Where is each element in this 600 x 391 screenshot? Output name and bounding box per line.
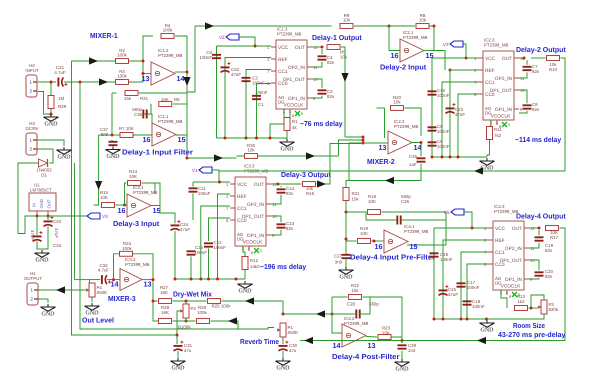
svg-text:R6: R6	[174, 97, 180, 102]
resistor R31	[125, 91, 138, 96]
wire input bus to P1 wiper	[80, 82, 274, 329]
junction	[186, 71, 189, 74]
wire gnd rail IC4.3	[434, 318, 487, 320]
junction rail	[269, 137, 272, 140]
junction	[186, 157, 189, 160]
capacitor C37	[109, 142, 118, 145]
wire R26 right	[211, 321, 239, 329]
wire to IC2.1 input	[389, 26, 400, 51]
wire wet in	[75, 279, 90, 281]
arrow delay4 return	[477, 337, 486, 344]
wire C15 down	[190, 256, 192, 279]
junction rail	[216, 278, 219, 281]
svg-text:100k: 100k	[117, 52, 127, 57]
capacitor C12	[204, 243, 213, 246]
wire C32 to opamp	[107, 279, 120, 281]
svg-text:PT2399_MB: PT2399_MB	[494, 209, 518, 214]
capacitor C14	[277, 189, 286, 192]
capacitor C18	[463, 301, 472, 304]
junction rail	[485, 318, 488, 321]
wire C14 to OP2_IN	[271, 195, 281, 204]
svg-text:Delay-2 Output: Delay-2 Output	[516, 45, 566, 54]
resistor R15	[102, 203, 115, 208]
supply flag V3	[443, 41, 463, 47]
svg-text:CC1: CC1	[495, 250, 505, 256]
arrow delay3 out	[317, 180, 326, 187]
svg-text:100nF: 100nF	[440, 257, 453, 262]
capacitor C24	[171, 220, 181, 230]
wire delay4 out return	[300, 228, 565, 341]
wire R30 row	[237, 155, 339, 157]
wire R8 right	[430, 26, 435, 51]
svg-text:C35: C35	[409, 154, 418, 159]
op-amp IC3.1	[118, 185, 161, 217]
svg-text:47uF: 47uF	[231, 72, 241, 77]
svg-text:100k: 100k	[122, 246, 132, 251]
wire R28 to R26	[173, 320, 196, 322]
wire OUT right	[519, 57, 524, 59]
junction	[112, 278, 115, 281]
svg-text:GND: GND	[340, 275, 354, 281]
svg-text:15k: 15k	[124, 96, 132, 101]
svg-text:GND: GND	[172, 366, 186, 372]
ground H1	[41, 304, 56, 318]
svg-text:IN: IN	[32, 203, 37, 207]
resistor R4	[161, 23, 174, 39]
svg-text:OP1_OUT: OP1_OUT	[490, 88, 512, 94]
junction rail	[199, 278, 202, 281]
svg-text:R7 10K: R7 10K	[119, 126, 134, 131]
svg-text:R1: R1	[292, 119, 298, 124]
wire C21 to R3	[64, 81, 116, 83]
wire P1 bottom	[282, 337, 284, 344]
svg-text:82n: 82n	[327, 60, 335, 65]
junction rail	[449, 156, 452, 159]
svg-text:R29: R29	[58, 104, 67, 109]
svg-text:82n: 82n	[532, 107, 540, 112]
svg-text:GND: GND	[107, 154, 121, 160]
wire R31 right	[139, 92, 187, 94]
svg-text:100k: 100k	[117, 73, 127, 78]
op-amp IC3.2	[111, 257, 152, 291]
wire to R31	[112, 92, 117, 94]
junction	[176, 334, 179, 337]
capacitor C29	[398, 345, 407, 348]
resistor R18	[368, 210, 381, 215]
IC IC3.3 PT2399	[226, 164, 277, 256]
junction	[142, 72, 145, 75]
wire R24 left to input	[114, 254, 120, 280]
svg-text:OP1_OUT: OP1_OUT	[242, 214, 264, 220]
wire V1 stub	[212, 170, 219, 182]
wire C7 top	[526, 60, 528, 65]
supply flag V3	[87, 213, 108, 219]
svg-text:R12: R12	[250, 258, 259, 263]
wire R27 to R25	[173, 300, 207, 302]
wire opamp out	[175, 71, 187, 73]
wire to R19	[346, 240, 357, 242]
wire AG to R11	[490, 120, 492, 126]
capacitor C34	[33, 231, 43, 241]
svg-text:C33: C33	[53, 219, 62, 224]
svg-text:Delay-1 Input Filter: Delay-1 Input Filter	[122, 148, 193, 157]
svg-text:GND: GND	[45, 122, 59, 128]
wire C19 to OP2_IN	[529, 243, 539, 248]
junction	[345, 238, 348, 241]
wire OUT right	[529, 227, 539, 229]
wire H2 pin1 to C21	[38, 81, 56, 83]
svg-text:10k: 10k	[340, 55, 348, 60]
svg-text:10K: 10K	[161, 97, 169, 102]
wire CC0 left down	[209, 218, 231, 241]
wire P4 top	[89, 280, 91, 283]
capacitor C31	[174, 341, 184, 351]
wire C5 branch	[216, 46, 218, 138]
svg-text:GND: GND	[39, 199, 44, 208]
wire C14 top	[280, 186, 282, 187]
svg-text:R10: R10	[549, 67, 558, 72]
junction	[79, 81, 82, 84]
svg-text:OP1_OUT: OP1_OUT	[283, 77, 305, 83]
wire C8 to OP1_IN pin9	[519, 111, 527, 113]
svg-text:GND: GND	[277, 366, 291, 372]
arrow return end	[304, 337, 313, 344]
resistor R13	[515, 306, 528, 311]
wire C33 down	[42, 226, 48, 249]
wire R24 right to out	[133, 254, 154, 280]
connector H3	[26, 121, 39, 155]
wire C28 right	[360, 297, 370, 314]
svg-text:C27: C27	[334, 254, 343, 259]
op-amp IC1.1	[143, 114, 186, 146]
wire vcc rail	[432, 57, 466, 59]
svg-text:15: 15	[410, 242, 418, 251]
svg-text:14: 14	[111, 280, 119, 289]
capacitor C35	[417, 158, 426, 161]
svg-text:7k2: 7k2	[494, 133, 502, 138]
junction	[401, 339, 404, 342]
svg-text:560p: 560p	[369, 302, 379, 307]
wire R4 to output	[175, 36, 187, 72]
connector H2	[25, 63, 38, 97]
svg-text:V2: V2	[219, 35, 225, 40]
svg-text:Delay-2 Input: Delay-2 Input	[380, 63, 427, 72]
svg-text:13: 13	[142, 74, 150, 83]
svg-text:100nF: 100nF	[437, 93, 450, 98]
junction rail	[442, 318, 445, 321]
svg-text:Room Size: Room Size	[513, 321, 545, 330]
junction	[420, 141, 423, 144]
ground C33 C34	[35, 250, 50, 264]
wire R20 right	[405, 108, 422, 136]
wire CC1 left down	[201, 206, 230, 279]
junction	[254, 45, 257, 48]
svg-text:13: 13	[368, 341, 376, 350]
svg-text:100nF: 100nF	[195, 250, 208, 255]
svg-text:1n3: 1n3	[408, 348, 416, 353]
capacitor C5	[212, 55, 221, 58]
svg-text:PT2399_MB: PT2399_MB	[403, 35, 427, 40]
wire R2 R3 to opamp node	[129, 61, 144, 82]
svg-text:PT2399_MB: PT2399_MB	[133, 190, 157, 195]
wire AG to R13	[501, 290, 507, 308]
svg-text:47uF: 47uF	[54, 228, 59, 238]
svg-text:R16: R16	[306, 191, 315, 196]
svg-text:16: 16	[143, 135, 151, 144]
wire C19 top	[538, 230, 540, 235]
svg-text:OUTPUT: OUTPUT	[24, 276, 42, 281]
capacitor C11	[189, 188, 198, 191]
wire to R2	[72, 60, 116, 62]
wire C11 top	[192, 182, 194, 187]
svg-text:3n9: 3n9	[335, 260, 343, 265]
wire C16 branch	[433, 228, 435, 319]
wire C36 to opamp	[147, 114, 152, 123]
svg-text:100nF: 100nF	[467, 285, 480, 290]
svg-text:OP2_IN: OP2_IN	[247, 202, 265, 208]
svg-text:100nF: 100nF	[198, 191, 211, 196]
svg-text:100nF: 100nF	[437, 129, 450, 134]
wire P2 wiper down	[177, 311, 180, 344]
svg-text:Delay-4 Post-Filter: Delay-4 Post-Filter	[332, 352, 400, 361]
wire R6 C36 node	[143, 104, 151, 114]
svg-text:10k: 10k	[247, 147, 255, 152]
wire OP1_OUT to C8	[519, 90, 527, 103]
resistor R10	[547, 56, 560, 72]
svg-text:R17: R17	[550, 235, 559, 240]
svg-text:GND: GND	[36, 258, 50, 264]
wire C30 down	[282, 351, 284, 358]
svg-text:13: 13	[144, 280, 152, 289]
capacitor C27	[342, 255, 351, 258]
wire d1f to mixer2	[339, 140, 364, 156]
wire mixer2 out	[412, 143, 421, 157]
junction rail	[255, 137, 258, 140]
svg-text:R21: R21	[352, 191, 361, 196]
capacitor C25	[439, 285, 449, 295]
svg-text:15k: 15k	[351, 288, 359, 293]
svg-text:PT2399_MB: PT2399_MB	[404, 229, 428, 234]
svg-text:14: 14	[414, 143, 422, 152]
wire gnd rail IC1.3	[217, 137, 288, 139]
svg-text:R25 100k: R25 100k	[212, 304, 232, 309]
junction	[282, 313, 285, 316]
capacitor C1	[252, 96, 261, 99]
junction	[388, 25, 391, 28]
svg-text:100k: 100k	[197, 310, 207, 315]
junction ground	[50, 113, 53, 116]
wire R11 to rail	[487, 140, 490, 157]
connector H1	[24, 271, 42, 305]
wire top feed left	[195, 25, 332, 27]
wire CC1 left	[461, 252, 488, 319]
svg-text:OUT: OUT	[502, 56, 512, 62]
wire to C29	[401, 337, 403, 343]
wire to R18	[346, 211, 367, 213]
wire C11 down	[192, 193, 194, 220]
svg-text:1k2: 1k2	[517, 299, 525, 304]
resistor R9	[340, 13, 353, 29]
svg-text:OUT: OUT	[295, 45, 305, 51]
svg-text:GND: GND	[58, 155, 72, 161]
capacitor C36	[143, 110, 146, 119]
svg-text:10K: 10K	[382, 331, 390, 336]
resistor R25	[208, 299, 221, 304]
wire wet bus to out level	[74, 163, 76, 280]
svg-text:43-270 ms pre-delay: 43-270 ms pre-delay	[498, 330, 565, 339]
wire OUT to node	[312, 46, 322, 48]
ground IC1.3	[280, 139, 295, 153]
wire VCC in	[193, 181, 230, 183]
svg-text:GND: GND	[239, 289, 253, 295]
ground IC2.3	[480, 158, 495, 172]
capacitor C33	[44, 216, 54, 226]
capacitor C28	[356, 310, 359, 319]
junction rail	[431, 156, 434, 159]
arrow after R30	[306, 152, 315, 159]
svg-text:47uF: 47uF	[455, 112, 465, 117]
resistor R2	[116, 48, 129, 64]
wire REF to C22	[225, 58, 271, 139]
wire C4 top	[321, 49, 323, 54]
capacitor C10	[428, 91, 437, 94]
svg-text:MIXER-2: MIXER-2	[367, 157, 395, 166]
svg-text:MIXER-1: MIXER-1	[90, 31, 118, 40]
svg-text:R11: R11	[494, 127, 502, 132]
wire C37 node to R7	[112, 134, 120, 136]
wire to C33	[47, 216, 49, 220]
wire to R10	[531, 57, 546, 59]
svg-text:GND: GND	[481, 328, 495, 334]
svg-text:B100K: B100K	[178, 325, 191, 330]
wire V3 to VCC IC2.3	[463, 44, 478, 58]
svg-text:OUT: OUT	[254, 182, 264, 188]
capacitor C9	[428, 142, 437, 145]
svg-text:VCC: VCC	[495, 226, 506, 232]
svg-text:Out Level: Out Level	[82, 316, 114, 325]
capacitor C17	[457, 283, 466, 286]
svg-text:3n9: 3n9	[101, 132, 109, 137]
resistor R19	[358, 239, 371, 244]
capacitor C8	[523, 105, 532, 108]
junction rail	[207, 278, 210, 281]
wire opamp input stub	[143, 73, 151, 75]
wire gnd rail IC3.3	[175, 278, 245, 280]
junction	[321, 46, 324, 49]
svg-text:82n: 82n	[286, 191, 294, 196]
svg-text:VCOCLK: VCOCLK	[491, 114, 512, 120]
svg-text:V3: V3	[102, 214, 108, 219]
svg-text:10K: 10K	[129, 174, 137, 179]
capacitor C3	[318, 90, 327, 93]
svg-text:CC1: CC1	[237, 206, 247, 212]
capacitor C19	[535, 237, 544, 240]
svg-text:LM7805CT: LM7805CT	[30, 188, 52, 193]
wire D1 to V3 rail	[18, 163, 87, 234]
wire P3 bottom to rail	[487, 314, 544, 319]
svg-text:OP1_OUT: OP1_OUT	[500, 258, 522, 264]
svg-text:82n: 82n	[545, 274, 553, 279]
svg-text:V1: V1	[192, 168, 198, 173]
capacitor C26	[397, 216, 400, 225]
resistor R1	[284, 118, 290, 131]
wire C13 to OP1_IN	[271, 230, 281, 235]
svg-text:14: 14	[177, 74, 185, 83]
wire OUT right	[271, 183, 278, 185]
resistor R5	[327, 45, 340, 50]
resistor R17	[546, 226, 559, 231]
svg-text:REF: REF	[278, 57, 288, 63]
svg-text:CC1: CC1	[278, 69, 288, 75]
junction	[47, 215, 50, 218]
junction	[433, 25, 436, 28]
svg-text:1uF: 1uF	[409, 162, 417, 167]
wire fb riser to mixer2	[349, 143, 363, 181]
wire H1 pin1 to P4 wiper -- actually wiper	[38, 289, 87, 291]
wire mixer3 out	[142, 279, 153, 281]
wire mixer1 out down	[186, 72, 188, 158]
resistor R11	[487, 127, 493, 140]
wire IC2.1 out right	[434, 51, 445, 71]
supply flag V5	[444, 209, 464, 215]
wire filter out right	[187, 157, 237, 159]
wire R6 right	[173, 103, 187, 105]
resistor R7	[120, 133, 133, 138]
svg-text:A50K: A50K	[288, 330, 299, 335]
svg-text:~196 ms delay: ~196 ms delay	[260, 262, 306, 271]
wire C20 to OP1_IN	[529, 278, 539, 279]
arrow delay2 return	[474, 167, 483, 174]
junction rail	[457, 156, 460, 159]
junction rail	[433, 318, 436, 321]
resistor R23	[378, 335, 391, 340]
resistor R16	[303, 182, 316, 187]
resistor R28	[159, 319, 172, 324]
svg-text:4.7uF: 4.7uF	[98, 268, 110, 273]
wire R12 down	[244, 270, 246, 279]
svg-text:D1: D1	[41, 172, 47, 177]
svg-text:Dry-Wet Mix: Dry-Wet Mix	[173, 290, 212, 299]
svg-text:15: 15	[153, 206, 161, 215]
svg-text:100nF: 100nF	[472, 304, 485, 309]
svg-text:C26: C26	[401, 199, 410, 204]
wire CC1 to C2	[246, 70, 271, 139]
wire delay2 out down	[561, 58, 566, 171]
svg-text:Delay-4 Input Pre-Filter: Delay-4 Input Pre-Filter	[350, 253, 435, 262]
potentiometer P3	[538, 300, 559, 314]
wire filter out	[176, 135, 187, 158]
wire P3 top fb	[531, 295, 544, 308]
wire DG down	[270, 114, 290, 138]
svg-text:PT2399_MB: PT2399_MB	[344, 321, 368, 326]
svg-text:P2: P2	[191, 306, 197, 311]
junction	[530, 307, 533, 310]
wire REF left	[443, 240, 488, 319]
svg-text:Delay-3 Input: Delay-3 Input	[113, 219, 160, 228]
capacitor C7	[523, 67, 532, 70]
svg-text:V3: V3	[443, 42, 449, 47]
wire R13 to P3	[529, 307, 539, 309]
resistor R22	[349, 295, 362, 300]
wire C3 to OP1_IN	[312, 96, 322, 98]
svg-text:16: 16	[375, 242, 383, 251]
junction rail	[190, 278, 193, 281]
wire mixer2 out to delay4 filter	[346, 164, 421, 187]
wire R19 to opamp	[372, 240, 385, 242]
junction rail	[441, 156, 444, 159]
wire R15 to opamp	[116, 204, 128, 206]
wire C29 down	[401, 351, 403, 359]
